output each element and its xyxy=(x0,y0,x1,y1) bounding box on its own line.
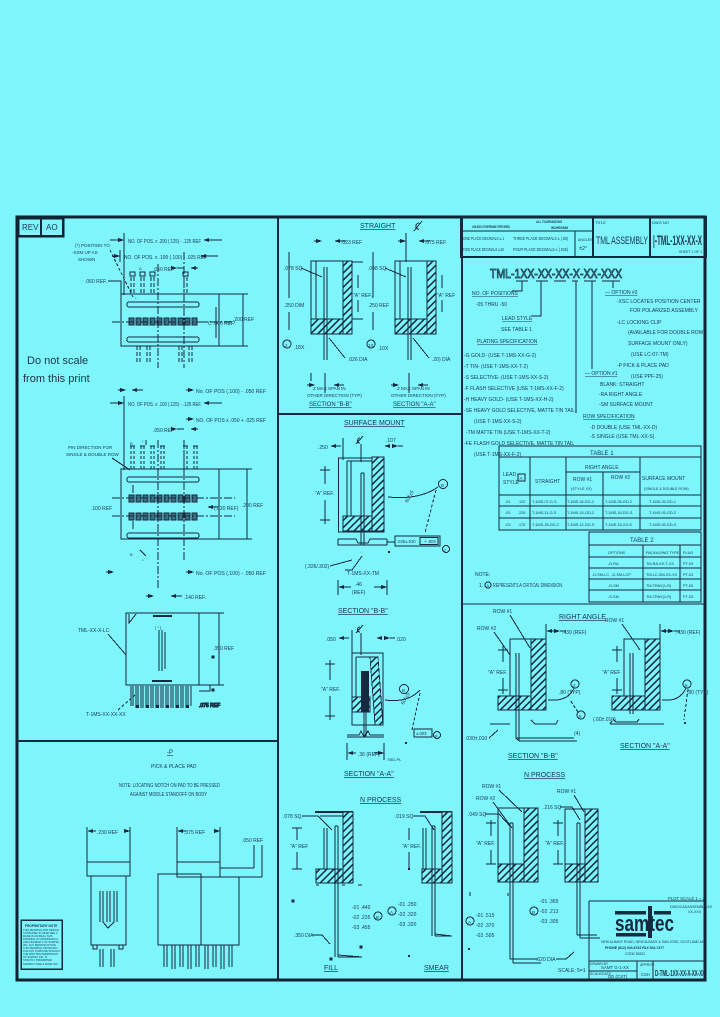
FILL pin xyxy=(335,826,362,957)
svg-text:PLATING SPECIFICATION: PLATING SPECIFICATION xyxy=(477,339,538,345)
RA B-B bottom dims xyxy=(465,724,580,742)
svg-text:T-1MS-XX-XX-XX: T-1MS-XX-XX-XX xyxy=(86,712,126,718)
svg-text:— OPTION #2: — OPTION #2 xyxy=(605,290,638,296)
proprietary note box xyxy=(21,920,62,969)
svg-text:-D DOUBLE (USE TML-XX-D): -D DOUBLE (USE TML-XX-D) xyxy=(590,425,657,431)
side view right dim .350 REF xyxy=(199,613,234,685)
svg-text:(AVAILABLE FOR DOUBLE ROW: (AVAILABLE FOR DOUBLE ROW xyxy=(628,330,704,336)
svg-text:SHOWN: SHOWN xyxy=(78,257,95,262)
pin direction note xyxy=(66,445,130,470)
straight B-B bottom arrows xyxy=(307,373,344,393)
svg-text:FOR POLARIZED ASSEMBLY: FOR POLARIZED ASSEMBLY xyxy=(630,308,699,314)
svg-text:No. OF POS (.100) - .050 REF: No. OF POS (.100) - .050 REF xyxy=(196,389,266,395)
side view pins xyxy=(131,686,191,708)
svg-text:.216 SQ: .216 SQ xyxy=(543,805,561,811)
left column content xyxy=(21,233,266,969)
svg-text:CSH: CSH xyxy=(641,972,650,977)
svg-text:ROW #1: ROW #1 xyxy=(482,784,501,790)
svg-text:.250 REF: .250 REF xyxy=(368,303,389,309)
SM A-A circled B + angle xyxy=(385,685,420,731)
svg-text:|-TML-1XX-XX-X: |-TML-1XX-XX-X xyxy=(653,232,702,248)
svg-text:(USE T-1MS-XX-S-2): (USE T-1MS-XX-S-2) xyxy=(474,419,522,425)
svg-text:TM-RA-XX-T-XX: TM-RA-XX-T-XX xyxy=(646,562,675,566)
svg-text:REV: REV xyxy=(22,223,39,232)
svg-text:SECTION "A-A": SECTION "A-A" xyxy=(344,771,394,778)
rev box xyxy=(18,218,63,236)
side view right step xyxy=(199,656,220,709)
svg-text:(.60±.010): (.60±.010) xyxy=(593,717,616,723)
IP left labels xyxy=(468,784,522,828)
svg-text:-01 .440: -01 .440 xyxy=(352,905,371,911)
lead style xyxy=(501,316,533,333)
horizontal divider middle column xyxy=(278,413,462,415)
svg-text:-D-RA: -D-RA xyxy=(608,562,619,566)
IP right dim stack xyxy=(530,899,559,925)
svg-text:(*) POSITION TO: (*) POSITION TO xyxy=(75,243,110,248)
svg-text:-02: -02 xyxy=(505,511,511,515)
svg-text:D-TML-1XX-XX-X-XX-XX: D-TML-1XX-XX-X-XX-XX xyxy=(655,969,705,978)
svg-text:13: 13 xyxy=(368,343,374,348)
svg-text:.10X: .10X xyxy=(378,346,389,352)
straight A-A span note xyxy=(391,386,446,408)
svg-text:.80 (TYP): .80 (TYP) xyxy=(687,690,709,696)
svg-text:B: B xyxy=(441,483,444,488)
SM B-B lower labels xyxy=(305,556,379,577)
svg-text:-XSC LOCATES POSITION CENTER: -XSC LOCATES POSITION CENTER xyxy=(617,299,701,305)
outer frame xyxy=(17,217,705,980)
SM A-A left dim xyxy=(321,660,340,720)
svg-text:B: B xyxy=(532,910,535,915)
svg-text:B: B xyxy=(435,734,438,739)
svg-text:-01: -01 xyxy=(505,500,511,504)
B marks top xyxy=(130,439,146,446)
svg-text:TWO PLACE DECIMALS ±.02: TWO PLACE DECIMALS ±.02 xyxy=(463,247,504,252)
svg-text:-TM MATTE TIN (USE T-1MS-XX-T-: -TM MATTE TIN (USE T-1MS-XX-T-2) xyxy=(466,430,551,436)
svg-text:.026 DIA: .026 DIA xyxy=(348,357,368,363)
connector body top view 1 xyxy=(121,294,219,346)
svg-text:ALL TOLERANCING: ALL TOLERANCING xyxy=(536,220,562,224)
svg-text:T-1MS-15-XX-S: T-1MS-15-XX-S xyxy=(605,523,632,527)
title block tolerance texts xyxy=(463,220,593,252)
SM B-B bottom dim .46 xyxy=(338,580,387,596)
svg-text:.050: .050 xyxy=(326,637,336,643)
svg-text:UNLESS OTHERWISE SPECIFIED: UNLESS OTHERWISE SPECIFIED xyxy=(472,225,510,229)
-P left drawing dims xyxy=(87,827,130,862)
SM B-B left dim A REF xyxy=(315,466,334,524)
svg-text:THREE PLACE DECIMALS ± (.05): THREE PLACE DECIMALS ± (.05) xyxy=(513,236,569,241)
horizontal divider right column under tables xyxy=(462,603,706,605)
svg-text:N PROCESS: N PROCESS xyxy=(524,772,566,779)
RA B-B body xyxy=(498,639,546,710)
side view label T-1MS xyxy=(86,695,135,718)
centerline glyph xyxy=(414,221,422,231)
svg-text:STRAIGHT: STRAIGHT xyxy=(360,223,396,230)
svg-text:A: A xyxy=(390,910,393,915)
svg-text:SAMT G-1-XX: SAMT G-1-XX xyxy=(601,965,629,970)
svg-text:-H HEAVY GOLD- (USE T-1MS-XX-: -H HEAVY GOLD- (USE T-1MS-XX-H-2) xyxy=(464,397,554,403)
svg-text:TM-TRAY(1-R): TM-TRAY(1-R) xyxy=(646,595,672,599)
svg-text:-02 .213: -02 .213 xyxy=(540,909,559,915)
RA A-A top dim xyxy=(660,624,701,641)
svg-text:TITLE: TITLE xyxy=(595,220,606,225)
svg-text:A: A xyxy=(520,476,523,481)
svg-text:NO. OF POS x .050 + .025 REF: NO. OF POS x .050 + .025 REF xyxy=(196,418,266,424)
svg-text:.060 REF.: .060 REF. xyxy=(85,279,107,285)
svg-text:.107: .107 xyxy=(386,438,396,444)
straight B-B circled 2 xyxy=(283,340,305,351)
svg-text:PT-05: PT-05 xyxy=(683,584,693,588)
svg-text:.375 REF: .375 REF xyxy=(184,830,205,836)
svg-text:.230 REF: .230 REF xyxy=(97,830,118,836)
IP right pins xyxy=(508,823,600,938)
svg-text:-01 .515: -01 .515 xyxy=(476,913,495,919)
svg-text:B: B xyxy=(130,552,133,557)
SM A-A foot xyxy=(347,731,384,737)
svg-text:AO: AO xyxy=(46,223,58,232)
svg-text:N PROCESS: N PROCESS xyxy=(360,797,402,804)
svg-text:-03 .305: -03 .305 xyxy=(540,919,559,925)
svg-text:(.020 REF): (.020 REF) xyxy=(214,506,239,512)
top view single row: dimension 2 xyxy=(112,250,218,262)
RA A-A dims xyxy=(593,680,709,724)
svg-text:T-1MS-05-GD-2: T-1MS-05-GD-2 xyxy=(605,500,632,504)
connector body top view 2 xyxy=(121,469,219,539)
svg-text:-XSM UP AS: -XSM UP AS xyxy=(72,250,98,255)
svg-text:ONE PLACE DECIMALS ±.1: ONE PLACE DECIMALS ±.1 xyxy=(463,236,505,241)
svg-text:LEAD STYLE: LEAD STYLE xyxy=(502,316,533,322)
svg-text:T-1MS-11-G-S: T-1MS-11-G-S xyxy=(532,511,557,515)
straight A-A circled 13 xyxy=(367,340,389,352)
svg-text:ROW #1: ROW #1 xyxy=(573,477,592,483)
svg-text:INCHES/MM: INCHES/MM xyxy=(551,226,568,230)
SM A-A top dims xyxy=(326,625,406,655)
svg-text:-SM SURFACE MOUNT: -SM SURFACE MOUNT xyxy=(599,402,653,408)
straight A-A: top dim xyxy=(398,233,446,262)
svg-text:.120: .120 xyxy=(518,500,525,504)
svg-text:SURFACE MOUNT ONLY): SURFACE MOUNT ONLY) xyxy=(628,341,688,347)
lower dim under view 1 xyxy=(118,388,266,395)
left dim view 2 xyxy=(91,485,133,529)
do not scale note xyxy=(23,355,90,385)
no of positions xyxy=(472,291,519,308)
svg-text:.019 SQ: .019 SQ xyxy=(395,814,413,820)
svg-text:-P PICK & PLACE PAD: -P PICK & PLACE PAD xyxy=(617,363,669,369)
RA B-B labels top xyxy=(477,609,530,655)
svg-text:-G GOLD- (USE T-1MS-XX-G-2): -G GOLD- (USE T-1MS-XX-G-2) xyxy=(464,353,536,359)
IP dia label xyxy=(536,952,586,974)
straight B-B pin xyxy=(324,267,327,360)
svg-text:— OPTION #1: — OPTION #1 xyxy=(585,371,618,377)
svg-text:SECTION "B-B": SECTION "B-B" xyxy=(309,402,352,408)
svg-text:SINGLE & DOUBLE ROW: SINGLE & DOUBLE ROW xyxy=(66,452,120,457)
svg-text:STRAIGHT: STRAIGHT xyxy=(535,479,560,485)
svg-text:.200 REF: .200 REF xyxy=(233,317,254,323)
svg-text:-F FLASH SELECTIVE (USE T-1MS: -F FLASH SELECTIVE (USE T-1MS-XX-F-2) xyxy=(464,386,564,392)
svg-text:DD (CST): DD (CST) xyxy=(608,974,628,979)
-P header xyxy=(151,750,197,770)
svg-text:.035±.010: .035±.010 xyxy=(397,539,416,544)
svg-text:ANGLES: ANGLES xyxy=(578,238,593,242)
svg-text:[ * ]: [ * ] xyxy=(155,625,161,630)
note xyxy=(475,572,563,589)
svg-text:"A" REF.: "A" REF. xyxy=(321,687,340,693)
svg-text:TML-XX-X-LC: TML-XX-X-LC xyxy=(78,628,110,634)
svg-text:SEE TABLE 1: SEE TABLE 1 xyxy=(501,327,532,333)
top view single row: dimension 1 xyxy=(110,233,222,295)
svg-text:STYLE: STYLE xyxy=(503,480,520,486)
svg-text:-LC LOCKING CLIP: -LC LOCKING CLIP xyxy=(617,320,662,326)
samtec logo block xyxy=(589,896,713,980)
svg-text:.075 REF: .075 REF xyxy=(199,703,220,709)
svg-text:NEW ALBANY ROAD, NEW ALBANY &: NEW ALBANY ROAD, NEW ALBANY & SAN JOSE, … xyxy=(601,940,707,944)
svg-text:-D-SM: -D-SM xyxy=(608,584,619,588)
IP right dims xyxy=(545,820,564,864)
svg-text:PLUG: PLUG xyxy=(683,551,693,555)
svg-text:NO. OF POS. x .100 (.125) - .1: NO. OF POS. x .100 (.125) - .125 REF xyxy=(128,402,201,408)
svg-text:TM-LC-SM-XX-XX: TM-LC-SM-XX-XX xyxy=(646,573,678,577)
straight A-A bottom arrows xyxy=(391,373,428,393)
svg-text:PT-05: PT-05 xyxy=(683,595,693,599)
svg-text:TML-1XX-XX-XX-X-XX-XXX: TML-1XX-XX-XX-X-XX-XXX xyxy=(490,266,622,281)
svg-text:SCALE: 5=1: SCALE: 5=1 xyxy=(558,968,586,974)
svg-text:.170: .170 xyxy=(518,523,525,527)
svg-text:DWG NO: DWG NO xyxy=(652,220,669,225)
RA A-A labels top xyxy=(605,618,640,650)
plating specification xyxy=(464,339,575,458)
RA B-B pin xyxy=(516,653,577,741)
FILL marks under body xyxy=(292,885,362,960)
pad rows view 2 xyxy=(129,495,197,520)
svg-text:.030±.010: .030±.010 xyxy=(465,736,487,742)
IP left dim stack xyxy=(466,913,495,950)
svg-text:B: B xyxy=(130,441,133,446)
FILL drawing xyxy=(283,812,353,883)
straight B-B dia label xyxy=(329,338,368,363)
svg-text:-03 .505: -03 .505 xyxy=(476,933,495,939)
option 2 xyxy=(605,290,704,380)
svg-text:SECTION "B-B": SECTION "B-B" xyxy=(338,608,388,615)
svg-text:SAMTEC CODE 2 MADE INC.: SAMTEC CODE 2 MADE INC. xyxy=(23,962,59,966)
hatched bottom band xyxy=(311,319,343,334)
svg-text:1.: 1. xyxy=(479,583,483,589)
svg-text:"A" REF: "A" REF xyxy=(290,844,308,850)
IP left dims xyxy=(470,820,496,896)
svg-text:SHEET 1 OF 1: SHEET 1 OF 1 xyxy=(679,250,702,254)
svg-text:.050 REF: .050 REF xyxy=(153,267,174,273)
RA A-A pin + foot xyxy=(610,653,664,724)
svg-text:T-1MS-16-DG-S: T-1MS-16-DG-S xyxy=(605,511,633,515)
svg-text:PT-03: PT-03 xyxy=(683,573,693,577)
svg-text:B: B xyxy=(376,915,379,920)
svg-text:TML ASSEMBLY: TML ASSEMBLY xyxy=(596,235,648,247)
svg-text:T-1MS-34-DG-2: T-1MS-34-DG-2 xyxy=(567,500,594,504)
B marks bottom xyxy=(130,550,146,563)
RA B-B top dim xyxy=(546,624,587,641)
SM B-B body xyxy=(339,457,385,532)
option 1 xyxy=(585,371,653,408)
IP left pins xyxy=(510,823,541,963)
svg-text:SECTION "A-A": SECTION "A-A" xyxy=(393,402,436,408)
svg-text:ROW #2: ROW #2 xyxy=(611,475,630,481)
svg-text:.100 REF: .100 REF xyxy=(91,506,112,512)
svg-text:No. OF POS (.100) - .050 REF: No. OF POS (.100) - .050 REF xyxy=(196,571,266,577)
svg-text:APPROV.: APPROV. xyxy=(640,963,655,967)
SM B-B foot xyxy=(338,539,387,545)
svg-text:CODE 55322: CODE 55322 xyxy=(625,952,645,956)
svg-text:-P: -P xyxy=(167,750,173,756)
svg-text:-SE HEAVY GOLD SELECTIVE, MATT: -SE HEAVY GOLD SELECTIVE, MATTE TIN TAIL xyxy=(464,408,575,414)
svg-text:.050 REF: .050 REF xyxy=(153,428,174,434)
svg-text:-02 .235: -02 .235 xyxy=(352,915,371,921)
svg-text:"A" REF.: "A" REF. xyxy=(402,844,421,850)
svg-text:.200 REF: .200 REF xyxy=(242,503,263,509)
dwg no box xyxy=(652,220,702,254)
pin tops 1 xyxy=(130,272,188,276)
.140 REF dim above side view xyxy=(146,594,206,601)
svg-text:DWG/CADASSEMBLY/XX: DWG/CADASSEMBLY/XX xyxy=(670,905,713,909)
svg-text:.430 (REF): .430 (REF) xyxy=(562,630,587,636)
svg-text:-05 THRU -50: -05 THRU -50 xyxy=(476,302,507,308)
svg-text:T-1MS-15-GD-2: T-1MS-15-GD-2 xyxy=(567,511,594,515)
svg-text:SMEAR: SMEAR xyxy=(424,965,449,972)
svg-text:.250: .250 xyxy=(318,445,328,451)
svg-text:A: A xyxy=(139,266,142,271)
svg-text:"A" REF: "A" REF xyxy=(437,293,455,299)
svg-text:T-1MS-05-GD-2: T-1MS-05-GD-2 xyxy=(649,511,676,515)
.060 REF label xyxy=(85,279,121,294)
svg-text:"A" REF.: "A" REF. xyxy=(353,293,372,299)
centerlines view 1 xyxy=(112,252,235,368)
svg-text:T-1MS-25-DG-2: T-1MS-25-DG-2 xyxy=(532,523,559,527)
svg-text:AGAINST MIDDLE STANDOFF ON BOD: AGAINST MIDDLE STANDOFF ON BODY xyxy=(130,792,208,798)
right dims view 2 xyxy=(207,469,263,539)
svg-text:PT-03: PT-03 xyxy=(683,562,693,566)
svg-text:(4): (4) xyxy=(574,731,580,737)
svg-text:TABLE 1: TABLE 1 xyxy=(590,451,614,457)
svg-text:C .060 REF: C .060 REF xyxy=(208,321,234,327)
right column content xyxy=(461,217,713,980)
svg-text:(USE LC-07-TM): (USE LC-07-TM) xyxy=(631,352,669,358)
svg-text:PIN DIRECTION FOR: PIN DIRECTION FOR xyxy=(68,445,113,450)
svg-text:STRICTLY PROHIBITED.: STRICTLY PROHIBITED. xyxy=(23,958,53,962)
svg-text:ROW #2: ROW #2 xyxy=(477,626,496,632)
svg-text:NOTE: LOCATING NOTCH ON PAD TO: NOTE: LOCATING NOTCH ON PAD TO BE PRESSE… xyxy=(119,783,220,789)
svg-text:.46: .46 xyxy=(355,582,362,588)
position note xyxy=(72,243,133,297)
side view pin tips xyxy=(136,705,189,708)
row specification xyxy=(583,414,657,440)
pins below body 1 (dashed) xyxy=(137,346,192,363)
FILL dia label xyxy=(294,933,330,944)
side view label TML xyxy=(78,628,126,655)
svg-text:PROPRIETARY NOTE: PROPRIETARY NOTE xyxy=(25,924,57,928)
RA A-A body xyxy=(612,639,660,710)
svg-text:T-1MS-12-GD-S: T-1MS-12-GD-S xyxy=(567,523,595,527)
top view double row: dimension 1 xyxy=(110,396,222,470)
svg-text:.250 DIM: .250 DIM xyxy=(284,303,304,309)
svg-text:OTHER DIRECTION (TYP): OTHER DIRECTION (TYP) xyxy=(307,393,362,398)
SM A-A pin solid xyxy=(361,671,369,712)
svg-text:-03 .320: -03 .320 xyxy=(398,922,417,928)
top view single row: .050 REF dim xyxy=(153,266,198,273)
svg-text:T-1MS-05-GD-1: T-1MS-05-GD-1 xyxy=(649,500,676,504)
svg-text:RIGHT ANGLE: RIGHT ANGLE xyxy=(559,614,606,621)
svg-text:.20) DIA: .20) DIA xyxy=(432,357,451,363)
svg-text:T-1MS-XX-TM: T-1MS-XX-TM xyxy=(347,571,379,577)
svg-text:.050 REF: .050 REF xyxy=(242,838,263,844)
pins above body 1 (dashed) xyxy=(131,277,187,294)
svg-text:SURFACE MOUNT: SURFACE MOUNT xyxy=(344,420,405,427)
SM A-A bottom dim .36 xyxy=(347,743,402,762)
SM B-B pin xyxy=(361,473,364,545)
vertical divider left/middle xyxy=(277,216,279,981)
svg-text:(SINGLE & DOUBLE ROW): (SINGLE & DOUBLE ROW) xyxy=(644,487,689,491)
svg-text:REPRESENTS A CRITICAL DIMENSIO: REPRESENTS A CRITICAL DIMENSION. xyxy=(493,583,563,589)
svg-text:A: A xyxy=(468,920,471,925)
svg-text:NOTE:: NOTE: xyxy=(475,572,490,578)
svg-text:"A" REF.: "A" REF. xyxy=(315,491,334,497)
vertical divider middle/right xyxy=(461,216,463,981)
svg-text:"A" REF.: "A" REF. xyxy=(545,841,564,847)
-P note xyxy=(119,783,220,798)
svg-text:.020 DIA: .020 DIA xyxy=(536,957,556,963)
IP right labels xyxy=(543,789,584,820)
svg-text:FILL: FILL xyxy=(324,965,338,972)
svg-text:±.003: ±.003 xyxy=(416,731,427,736)
svg-text:-S SELECTIVE- (USE T-1MS-XX-S: -S SELECTIVE- (USE T-1MS-XX-S-2) xyxy=(464,375,549,381)
svg-text:BLANK: STRAIGHT: BLANK: STRAIGHT xyxy=(600,382,644,388)
svg-text:Do not scale: Do not scale xyxy=(27,355,88,367)
svg-text:.80 (TYP): .80 (TYP) xyxy=(559,690,581,696)
RA B-B left dim xyxy=(488,646,508,694)
svg-text:XX-XXX: XX-XXX xyxy=(688,910,702,914)
svg-text:FOUR PLACE DECIMALS ± (.025): FOUR PLACE DECIMALS ± (.025) xyxy=(513,247,569,252)
bottom strip boxes xyxy=(589,961,706,980)
svg-text:-01 .250: -01 .250 xyxy=(398,902,417,908)
pin tick tops 2 xyxy=(130,445,198,447)
svg-text:ROW #2: ROW #2 xyxy=(476,796,495,802)
svg-text:.350 DIA: .350 DIA xyxy=(294,933,314,939)
svg-text:-RA RIGHT ANGLE: -RA RIGHT ANGLE xyxy=(599,392,643,398)
-P right drawing xyxy=(158,862,239,969)
svg-text:-02 .320: -02 .320 xyxy=(398,912,417,918)
svg-text:ROW #1: ROW #1 xyxy=(493,609,512,615)
svg-text:.078 SQ.: .078 SQ. xyxy=(283,814,303,820)
hatched right wall xyxy=(343,261,352,334)
SMEAR dim stack xyxy=(388,868,417,957)
svg-text:.075 REF: .075 REF xyxy=(425,240,446,246)
top view double row: dimension 2 xyxy=(186,417,266,424)
svg-text:OTHER DIRECTION (TYP): OTHER DIRECTION (TYP) xyxy=(391,393,446,398)
svg-text:Z MAX SPAN IN: Z MAX SPAN IN xyxy=(397,386,430,391)
RA B-B circled 2 and typ xyxy=(548,680,585,719)
SM B-B tolerance box xyxy=(387,536,450,553)
straight B-B: top dim xyxy=(314,239,362,246)
side view body xyxy=(126,613,199,685)
svg-text:(STYLE XX): (STYLE XX) xyxy=(571,487,592,491)
svg-text:.225: .225 xyxy=(518,511,525,515)
SM B-B circled B + angle xyxy=(388,480,448,534)
straight A-A labels xyxy=(368,252,455,330)
svg-text:"A" REF.: "A" REF. xyxy=(488,670,507,676)
svg-text:PLOT SCALE 1 = 2: PLOT SCALE 1 = 2 xyxy=(668,896,706,901)
lower dim under view 2 xyxy=(106,570,266,577)
svg-text:ROW SPECIFICATION: ROW SPECIFICATION xyxy=(583,414,635,420)
svg-text:Z MAX SPAN IN: Z MAX SPAN IN xyxy=(313,386,346,391)
svg-text:.078 SQ: .078 SQ xyxy=(284,266,302,272)
centerlines view 2 xyxy=(112,440,235,590)
svg-text:from this print: from this print xyxy=(23,373,90,385)
